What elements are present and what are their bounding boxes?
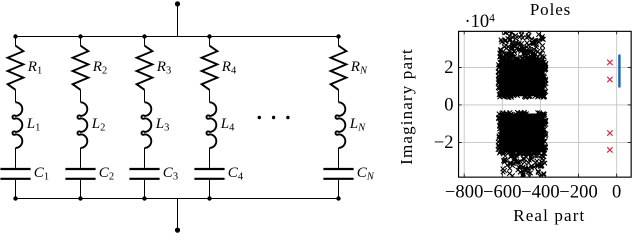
node top terminal dot	[175, 1, 180, 6]
wire branch 4 bottom lead	[209, 180, 211, 199]
svg-text:LN: LN	[349, 116, 366, 134]
node bottom junction branch 3	[142, 196, 146, 200]
svg-text:CN: CN	[357, 165, 375, 183]
plot tick marks	[458, 31, 631, 177]
svg-text:L3: L3	[155, 116, 170, 134]
wire branch 1 top lead	[15, 37, 17, 46]
svg-text:2: 2	[444, 58, 453, 78]
svg-text:Real part: Real part	[513, 206, 585, 225]
capacitor C1	[0, 169, 30, 179]
svg-text:R3: R3	[156, 59, 171, 77]
svg-text:Poles: Poles	[530, 0, 571, 19]
plot grid	[458, 31, 631, 177]
svg-text:−200: −200	[559, 182, 598, 202]
node top junction branch 2	[78, 34, 82, 38]
capacitor C4	[194, 169, 224, 179]
resistor R4	[202, 46, 218, 90]
resistor R3	[137, 46, 153, 90]
wire branch 2 top lead	[80, 37, 82, 46]
capacitor C2	[65, 169, 95, 179]
node top junction branch 3	[142, 34, 146, 38]
svg-text:RN: RN	[350, 59, 368, 77]
resistor R1	[8, 46, 24, 90]
svg-text:0: 0	[612, 182, 621, 202]
wire branch 4 top lead	[209, 37, 211, 46]
svg-text:R4: R4	[221, 59, 237, 77]
capacitor CN	[323, 169, 353, 179]
wire branch N bottom lead	[338, 180, 340, 199]
red pole markers	[607, 60, 612, 153]
svg-text:−800: −800	[445, 182, 484, 202]
svg-text:C4: C4	[228, 165, 244, 183]
svg-text:−600: −600	[483, 182, 522, 202]
wire branch 3 bottom lead	[144, 180, 146, 199]
wire top rail	[16, 36, 339, 38]
node bottom junction branch 2	[78, 196, 82, 200]
wire branch 3 top lead	[144, 37, 146, 46]
node top junction branch 1	[13, 34, 17, 38]
svg-text:−400: −400	[521, 182, 560, 202]
pole cluster dense core upper	[499, 60, 544, 96]
wire branch N resistor-inductor	[338, 90, 340, 103]
inductor L3	[141, 102, 151, 148]
svg-text:R2: R2	[92, 59, 107, 77]
node bottom junction branch 4	[207, 196, 211, 200]
svg-text:L4: L4	[220, 116, 235, 134]
node top junction branch 4	[207, 34, 211, 38]
resistor R2	[73, 46, 89, 90]
wire branch 3 inductor-capacitor	[144, 148, 146, 168]
svg-text:C2: C2	[99, 165, 114, 183]
node ellipsis dots	[258, 116, 290, 119]
svg-text:C3: C3	[163, 165, 178, 183]
wire branch 2 inductor-capacitor	[80, 148, 82, 168]
wire bottom rail	[16, 198, 339, 200]
wire bottom terminal stub	[177, 199, 179, 230]
svg-text:·104: ·104	[465, 12, 496, 32]
wire branch 4 resistor-inductor	[209, 90, 211, 103]
svg-text:−2: −2	[434, 133, 454, 153]
node bottom junction branch N	[336, 196, 340, 200]
svg-text:R1: R1	[27, 59, 42, 77]
wire branch 1 inductor-capacitor	[15, 148, 17, 168]
svg-text:L1: L1	[26, 116, 41, 134]
node top junction branch N	[336, 34, 340, 38]
wire branch 1 resistor-inductor	[15, 90, 17, 103]
wire branch 1 bottom lead	[15, 180, 17, 199]
wire branch 2 bottom lead	[80, 180, 82, 199]
svg-text:C1: C1	[34, 165, 49, 183]
wire branch 3 resistor-inductor	[144, 90, 146, 103]
inductor L1	[12, 102, 22, 148]
wire branch 2 resistor-inductor	[80, 90, 82, 103]
wire top terminal stub	[177, 4, 179, 37]
node bottom terminal dot	[175, 228, 180, 233]
inductor L4	[206, 102, 216, 148]
svg-text:Imaginary part: Imaginary part	[397, 48, 416, 165]
capacitor C3	[129, 169, 159, 179]
resistor RN	[331, 46, 347, 90]
inductor L2	[77, 102, 87, 148]
svg-text:0: 0	[444, 95, 453, 115]
node bottom junction branch 1	[13, 196, 17, 200]
plot axis box	[459, 31, 632, 177]
svg-text:L2: L2	[91, 116, 106, 134]
blue imaginary-axis segment	[618, 55, 620, 88]
pole cluster dense core lower	[499, 114, 544, 153]
inductor LN	[335, 102, 345, 148]
wire branch N top lead	[338, 37, 340, 46]
wire branch N inductor-capacitor	[338, 148, 340, 168]
wire branch 4 inductor-capacitor	[209, 148, 211, 168]
pole cluster x markers	[496, 29, 548, 179]
